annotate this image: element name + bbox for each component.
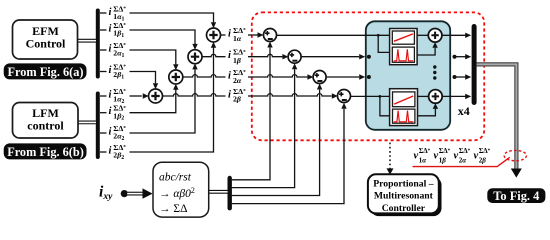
wire error e2a output stub into blue block <box>326 76 359 78</box>
EFM Control box <box>13 20 78 59</box>
red dashed boundary box <box>252 12 484 140</box>
label i2a2 <box>109 124 127 142</box>
svg-text:2α: 2α <box>459 156 467 164</box>
arrowhead right into E2a <box>307 74 313 79</box>
label i1b total reference <box>228 48 246 65</box>
error junction E1a with plus and minus <box>264 29 277 42</box>
junction dot branch bottom channel <box>379 95 382 98</box>
svg-text:From Fig. 6(b): From Fig. 6(b) <box>7 145 84 159</box>
proportional+resonant outer box channel 4 <box>390 89 418 126</box>
arrowhead right into E1a <box>258 32 264 37</box>
svg-text:2α: 2α <box>233 76 242 85</box>
sum junction J1b <box>188 50 202 64</box>
label i1b2 <box>109 104 127 122</box>
wire feedback 4 from transform bar to E2b bottom <box>232 109 344 204</box>
svg-text:i: i <box>228 89 231 100</box>
double line EFM control to bus <box>78 39 97 43</box>
svg-text:→ αβ02: → αβ02 <box>159 186 195 200</box>
label v2b output <box>474 147 491 165</box>
svg-text:i: i <box>109 106 112 117</box>
wire i1a2 (LFM row 1) into sum J2b left <box>100 95 142 97</box>
arrowhead sum S1 output into out-bar <box>465 33 471 38</box>
sum junction S1 in blue block <box>428 29 442 43</box>
wire i1a1 (EFM row 1) with elbow down into sum J1a <box>100 13 214 22</box>
arrowhead up into sum S2 bottom <box>433 103 438 109</box>
svg-text:Multiresonant: Multiresonant <box>374 191 434 202</box>
wire resonant block2 output elbow up into sum S2 bottom <box>415 109 435 116</box>
wire i2a1 (EFM row 3) with elbow down into sum J2a <box>100 50 176 64</box>
proportional gain sub-box channel 1 (red ramp) <box>392 31 414 44</box>
svg-text:i: i <box>228 50 231 61</box>
svg-text:i: i <box>109 7 112 18</box>
controller output collector bar <box>472 27 477 103</box>
arrowhead row2 into blue block edge <box>359 54 365 59</box>
label i2b2 <box>109 143 127 161</box>
label ixy input <box>99 184 113 203</box>
svg-text:i: i <box>109 145 112 156</box>
label i1a total reference <box>228 26 246 43</box>
error junction E1b with plus and minus <box>288 50 301 63</box>
wire row2 output of J1b with hop bumps to E1b <box>202 54 283 56</box>
label v2a output <box>454 147 471 165</box>
arrowhead up into E1a bottom <box>267 42 272 48</box>
wire i2a2 (LFM row 3) riser up into sum J1b bottom <box>100 69 195 133</box>
junction dot branch top channel <box>377 34 380 37</box>
svg-text:Controller: Controller <box>382 203 426 214</box>
sum junction J1a <box>207 28 221 42</box>
label v1a output <box>414 147 431 165</box>
svg-text:ΣΔ*: ΣΔ* <box>419 147 431 155</box>
svg-text:Control: Control <box>26 37 66 51</box>
label i2b1 <box>109 62 127 80</box>
wire feedback 1 from transform bar to E1a bottom <box>232 48 270 180</box>
svg-text:i: i <box>228 70 231 81</box>
arrowhead up into J2a bottom <box>173 84 178 90</box>
wire i1b1 (EFM row 2) with elbow down into sum J1b <box>100 30 195 44</box>
node dot on ixy input <box>121 190 128 197</box>
wire i2b1 (EFM row 4) with elbow down into sum J2b <box>100 72 156 84</box>
sum junction J2a <box>169 70 183 84</box>
LFM control box <box>13 103 79 139</box>
wire sum S1 output to out-bar <box>442 34 466 36</box>
proportional+resonant outer box channel 1 <box>390 29 418 65</box>
arrowhead down into J2b <box>153 83 158 89</box>
black dotted arrow from red box to controller label box <box>387 143 394 175</box>
svg-text:control: control <box>27 119 64 133</box>
svg-text:2β: 2β <box>233 95 241 104</box>
arrowhead up into sum S1 bottom <box>432 42 437 48</box>
arrowhead up into E2a bottom <box>317 84 322 90</box>
svg-text:i: i <box>109 43 112 54</box>
label i2a1 <box>109 41 127 59</box>
svg-text:Proportional –: Proportional – <box>373 178 434 189</box>
junction dot row3 inside blue block <box>367 75 371 79</box>
label v1b output <box>434 147 451 165</box>
arrowhead up into E1b bottom <box>292 63 297 69</box>
red underline of v labels with leader to bus ellipse <box>413 157 510 166</box>
arrowhead up into J1a bottom <box>211 42 216 48</box>
double line ixy to abc box <box>127 188 153 198</box>
arrowhead down into J1a <box>211 22 216 28</box>
svg-text:i: i <box>109 65 112 76</box>
From Fig. 6(b) tag <box>4 143 87 159</box>
label i1b1 <box>109 21 127 39</box>
svg-text:→ ΣΔ: → ΣΔ <box>159 203 187 215</box>
svg-text:ΣΔ*: ΣΔ* <box>439 147 451 155</box>
svg-text:2β: 2β <box>479 156 487 164</box>
arrowhead sum S2 output into out-bar <box>465 94 471 99</box>
wire error e2b output into blue block bottom channel, branch to resonant input <box>350 96 393 115</box>
proportional-multiresonant blue block background <box>366 21 450 130</box>
gray output bus to Fig 4 <box>477 64 522 177</box>
svg-text:1α: 1α <box>419 156 427 164</box>
arrowhead up into J1b bottom <box>192 63 197 69</box>
x4 replication note <box>458 104 470 118</box>
From Fig. 6(a) tag <box>4 63 87 79</box>
wire i1b2 (LFM row 2) riser up into sum J2a bottom <box>100 89 176 112</box>
abc/rst transform box <box>153 162 209 217</box>
svg-text:i: i <box>109 89 112 100</box>
ellipsis dots between channels in blue block <box>433 65 436 68</box>
wire i2b2 (LFM row 4) riser up into sum J1a bottom <box>100 47 214 152</box>
wire error e1b output stub into blue block <box>301 56 359 58</box>
wire stub row3 dot to out-bar <box>455 76 466 78</box>
To Fig. 4 tag <box>487 188 545 203</box>
svg-text:ΣΔ*: ΣΔ* <box>459 147 471 155</box>
arrowhead stub row3 into out-bar <box>465 74 471 79</box>
arrowhead stub row2 into out-bar <box>465 54 471 59</box>
proportional gain sub-box channel 4 (red ramp) <box>393 92 415 107</box>
arrowhead right into E1b <box>282 54 288 59</box>
svg-text:1β: 1β <box>439 156 447 164</box>
double line abc box to collector bar <box>209 190 228 194</box>
label i1a1 <box>109 4 127 22</box>
svg-text:abc/rst: abc/rst <box>159 172 192 184</box>
Proportional-Multiresonant Controller label box with shadow <box>368 174 442 216</box>
svg-text:To Fig. 4: To Fig. 4 <box>493 189 539 203</box>
svg-text:1β: 1β <box>233 56 241 65</box>
wire row4 output of J2b with hop bumps to E2b <box>162 94 332 96</box>
svg-text:ΣΔ*: ΣΔ* <box>479 147 491 155</box>
sum junction J2b <box>149 89 163 103</box>
wire sum S2 output to out-bar <box>442 95 466 97</box>
svg-text:From Fig. 6(a): From Fig. 6(a) <box>8 65 84 79</box>
arrowhead down into J2a <box>173 64 178 70</box>
resonant sub-box channel 1 (red peaks) <box>392 47 414 62</box>
svg-text:i: i <box>109 23 112 34</box>
double line LFM control to bus <box>78 121 96 125</box>
arrowhead right into E2b <box>332 93 338 98</box>
error junction E2a with plus and minus <box>313 71 326 84</box>
arrowhead down into J1b <box>192 44 197 50</box>
resonant sub-box channel 4 (red peaks) <box>393 109 415 123</box>
arrowhead up into E2b bottom <box>341 103 346 109</box>
red dashed ellipse on bus <box>504 150 526 160</box>
wire proportional block2 output to sum S2 <box>415 95 429 97</box>
wire feedback 3 from transform bar to E2a bottom <box>232 90 320 196</box>
junction dot row3 at blue block right edge <box>453 75 457 79</box>
svg-text:i: i <box>109 126 112 137</box>
arrowhead right into J2b left <box>143 93 149 98</box>
label i1a2 <box>109 87 127 105</box>
label i2b total reference <box>228 87 246 104</box>
wire resonant block1 output elbow up into sum S1 bottom <box>415 48 435 55</box>
wire row1 output of J1a to error junction E1a <box>220 34 258 36</box>
wire row3 output of J2a with hop bumps to E2a <box>182 75 307 77</box>
wire stub row2 dot to out-bar <box>455 56 466 58</box>
EFM reference bus bar <box>96 11 100 77</box>
wire feedback 2 from transform bar to E1b bottom <box>232 69 295 187</box>
sum junction S2 in blue block <box>429 90 443 104</box>
arrowhead row3 into blue block edge <box>359 74 365 79</box>
wire proportional block1 output to sum S1 <box>415 34 429 36</box>
svg-text:1α: 1α <box>233 34 242 43</box>
svg-text:x4: x4 <box>458 104 470 118</box>
label i2a total reference <box>228 68 246 85</box>
error junction E2b with plus and minus <box>338 90 351 103</box>
svg-text:i: i <box>228 28 231 39</box>
wire error e1a output into blue block top channel, branch to resonant input <box>276 35 392 52</box>
junction dot row2 inside blue block <box>367 55 371 59</box>
LFM reference bus bar <box>96 94 100 158</box>
transform output collector bar <box>227 178 231 208</box>
junction dot row2 at blue block right edge <box>453 55 457 59</box>
